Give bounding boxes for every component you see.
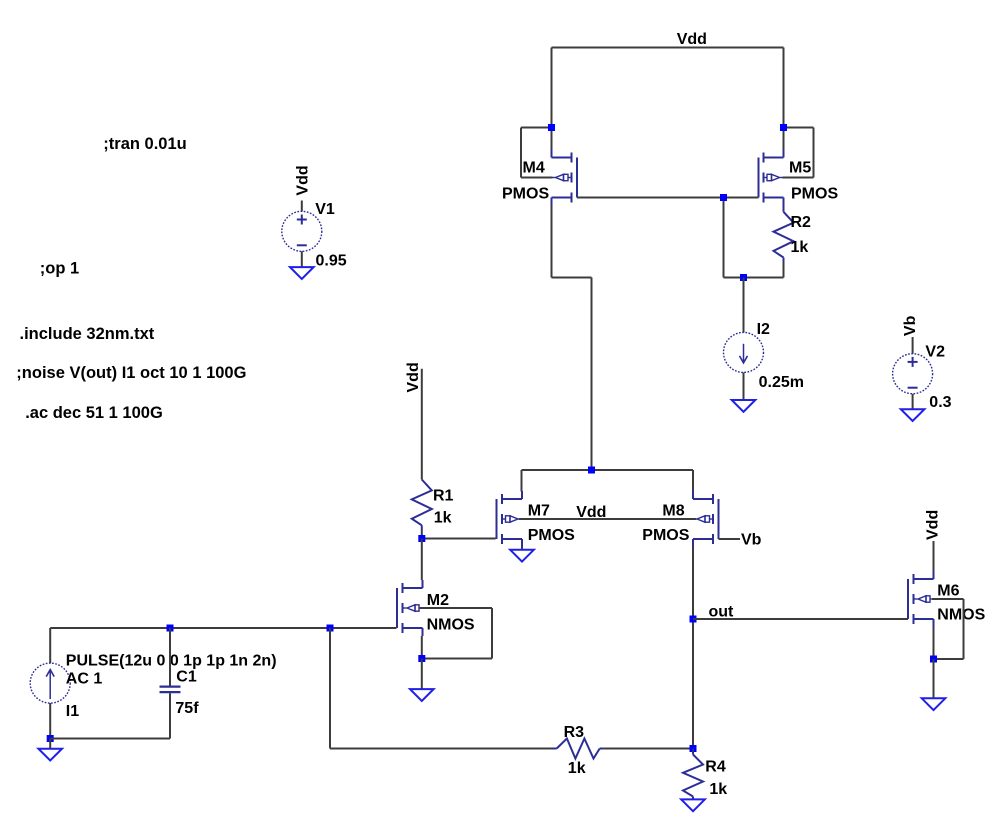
svg-text:.ac dec 51 1 100G: .ac dec 51 1 100G [25,404,163,422]
ground (M2 source) [410,689,434,701]
svg-text:M8: M8 [662,503,684,520]
wire [783,177,814,179]
wire [577,197,759,199]
svg-text:Vdd: Vdd [405,362,422,392]
resistor R4 [683,755,703,797]
wire [329,628,331,749]
wire [521,177,553,179]
resistor R2 [774,212,794,258]
junction [690,745,697,752]
svg-text:V1: V1 [315,201,335,218]
ground (R4) [681,799,705,811]
wire [912,394,914,409]
wire [521,547,523,550]
wire [591,278,593,471]
wire [519,518,696,520]
wire [330,748,553,750]
capacitor C1 [160,685,181,687]
svg-text:Vb: Vb [902,315,919,336]
transistor M4 [576,158,578,198]
wire [421,530,423,539]
wire [49,703,51,739]
wire [169,693,171,738]
wire [491,608,493,659]
junction [930,656,937,663]
svg-text:C1: C1 [176,669,197,686]
svg-text:PMOS: PMOS [791,186,838,203]
wire [933,541,935,572]
svg-text:PMOS: PMOS [502,186,549,203]
wire [692,619,694,749]
svg-text:NMOS: NMOS [937,607,985,624]
wire [421,369,423,480]
wire [49,628,51,663]
wire [723,198,725,278]
svg-text:;op 1: ;op 1 [40,260,79,278]
wire [692,749,694,755]
transistor M8 [718,499,720,539]
wire [520,128,522,178]
wire [934,658,964,660]
wire [421,636,423,659]
svg-text:0.25m: 0.25m [759,374,804,391]
ground (M6) [922,698,946,710]
svg-text:PMOS: PMOS [642,527,689,544]
svg-text:M7: M7 [528,503,550,520]
wire [743,278,745,333]
wire [421,525,423,529]
svg-text:Vdd: Vdd [677,31,707,48]
ground (V1) [290,267,314,279]
wire [422,538,496,540]
junction [740,274,747,281]
wire [301,201,303,212]
svg-text:1k: 1k [568,760,586,777]
junction [720,194,727,201]
ground (M7 source) [510,550,534,562]
wire [912,337,914,354]
wire [522,469,694,471]
wire [49,739,51,749]
svg-text:M2: M2 [427,592,449,609]
wire [932,598,964,600]
wire [784,127,814,129]
svg-text:1k: 1k [434,510,452,527]
junction [780,124,787,131]
svg-text:0.3: 0.3 [929,394,951,411]
wire [552,277,592,279]
svg-text:M5: M5 [789,159,811,176]
wire [783,262,785,278]
ground (V2) [901,409,925,421]
wire [420,607,493,609]
svg-text:;noise V(out) I1 oct 10 1 100G: ;noise V(out) I1 oct 10 1 100G [16,364,246,382]
svg-text:PMOS: PMOS [528,527,575,544]
wire [692,797,694,800]
junction [327,625,334,632]
svg-text:R3: R3 [564,724,585,741]
wire [521,470,523,492]
svg-text:M4: M4 [523,159,545,176]
ground (I1) [38,749,62,761]
junction [418,535,425,542]
junction [47,735,54,742]
wire [693,618,908,620]
wire [783,198,785,212]
wire [169,628,171,686]
wire [301,251,303,267]
svg-text:Vdd: Vdd [924,510,941,540]
svg-text:M6: M6 [937,582,959,599]
svg-text:Vdd: Vdd [294,165,311,195]
transistor M6 [907,579,909,619]
wire [421,539,423,581]
voltage source V1 [282,211,322,251]
wire [963,599,965,659]
junction [167,625,174,632]
wire [50,738,170,740]
svg-text:PULSE(12u 0 0 1p 1p 1n 2n): PULSE(12u 0 0 1p 1p 1n 2n) [66,653,277,670]
svg-text:Vb: Vb [741,531,762,548]
resistor R1 [412,480,432,526]
svg-text:1k: 1k [791,239,809,256]
svg-text:NMOS: NMOS [427,617,475,634]
wire [551,48,553,150]
svg-text:V2: V2 [925,343,945,360]
wire [719,538,741,540]
transistor M2 [396,588,398,628]
junction [418,655,425,662]
svg-text:R4: R4 [705,759,726,776]
voltage source V2 [893,354,933,394]
wire [521,127,552,129]
svg-text:AC 1: AC 1 [66,671,103,688]
transistor M7 [496,499,498,539]
wire [783,48,785,150]
svg-text:0.95: 0.95 [316,253,347,270]
wire [600,748,604,750]
wire [692,547,694,619]
current source I2 [724,332,764,372]
svg-text:.include 32nm.txt: .include 32nm.txt [20,325,155,343]
wire [692,470,694,492]
svg-text:I2: I2 [757,321,770,338]
svg-text:75f: 75f [175,700,199,717]
wire [933,659,935,698]
wire [604,748,693,750]
wire [724,277,784,279]
svg-text:1k: 1k [709,781,727,798]
svg-text:R2: R2 [791,214,812,231]
transistor M5 [758,158,760,198]
wire [552,47,784,49]
wire [421,659,423,690]
svg-text:I1: I1 [66,703,79,720]
svg-text:;tran 0.01u: ;tran 0.01u [103,135,186,153]
wire [743,372,745,400]
wire [553,748,557,750]
current source I1 [30,663,70,703]
wire [551,206,553,278]
svg-text:R1: R1 [433,487,454,504]
wire [783,258,785,262]
wire [50,627,396,629]
wire [422,658,492,660]
junction [548,124,555,131]
junction [690,616,697,623]
wire [813,128,815,178]
resistor R3 [557,739,600,759]
ground [732,400,756,412]
junction [588,467,595,474]
wire [933,627,935,659]
